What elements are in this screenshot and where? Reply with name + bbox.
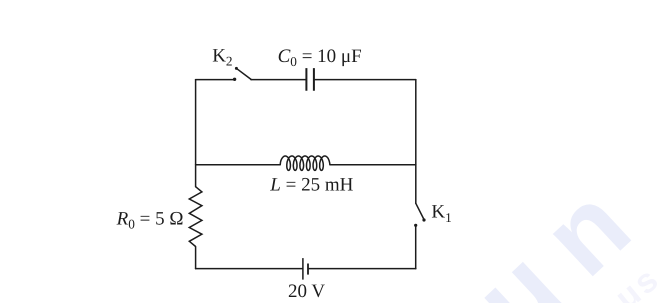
battery short plate [307,264,309,275]
wire middle branch left [196,164,281,166]
watermark corner "us" pale [608,259,667,303]
svg-text:R0 = 5 Ω: R0 = 5 Ω [116,208,184,231]
svg-text:20 V: 20 V [288,281,325,302]
svg-text:K1: K1 [431,202,451,225]
watermark "un" light blue [451,145,671,303]
wire capacitor to top-right corner [315,79,416,81]
wire bottom-left segment [196,268,303,270]
svg-text:C0 = 10 μF: C0 = 10 μF [278,46,362,69]
wire bottom-right segment [309,268,416,270]
switch K1 lower contact dot [414,224,417,227]
wire left vertical lower [195,247,197,269]
switch K2 contact dot [233,78,236,81]
inductor L coil [280,156,330,170]
battery long plate [302,258,304,280]
wire right vertical upper [415,80,417,204]
switch K2 lever [236,68,251,79]
wire switch K2 to capacitor [251,79,306,81]
svg-text:K2: K2 [212,46,232,69]
switch K2 pivot dot [235,67,238,70]
switch K1 lever [416,203,425,220]
capacitor C0 plates [306,68,314,91]
switch K1 lever end dot [422,218,425,221]
svg-text:L = 25 mH: L = 25 mH [269,175,353,196]
wire top-left segment [196,79,234,81]
resistor R0 zigzag [189,187,202,247]
wire right vertical lower [415,226,417,269]
wire middle branch right [330,164,416,166]
wire left vertical upper [195,80,197,187]
